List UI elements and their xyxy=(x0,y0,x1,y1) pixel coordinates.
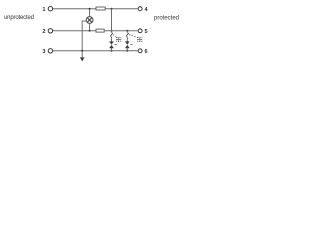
arrester B side dash xyxy=(130,44,132,46)
svg-text:5: 5 xyxy=(145,29,148,35)
branch B indicator linkage (dashed) xyxy=(129,35,138,38)
wire line3 (ground rail) xyxy=(53,50,138,52)
branch B vertical from line2 xyxy=(126,31,128,33)
terminal 2 circle xyxy=(48,29,52,33)
wire gdt ground electrode stub xyxy=(82,21,86,51)
wire line1 right segment xyxy=(105,8,138,10)
surge arrester A (spark gap) xyxy=(110,42,114,48)
svg-text:protected: protected xyxy=(154,15,179,21)
branch B thermal disconnect xyxy=(126,33,129,37)
branch B wire bottom xyxy=(126,48,128,51)
branch A wire bottom xyxy=(111,48,113,51)
terminal 3 circle xyxy=(48,49,52,53)
terminal 4 circle xyxy=(138,7,142,11)
resistor R2 xyxy=(96,29,104,32)
junction dot line2 x127.3 xyxy=(126,30,128,32)
junction dot line2 x111.5 (crossing) xyxy=(111,30,113,32)
junction dot line1 x89.7 xyxy=(89,8,91,10)
svg-text:2: 2 xyxy=(42,29,45,35)
defect indicator box B xyxy=(138,37,142,41)
junction dot line3 x82.2 xyxy=(81,50,83,52)
wire gdt top vertical xyxy=(89,9,91,17)
terminal 1 circle xyxy=(48,7,52,11)
junction dot line1 x111.5 xyxy=(111,8,113,10)
resistor R1 xyxy=(96,7,105,10)
junction dot line3 x111.5 xyxy=(111,50,113,52)
branch A thermal disconnect xyxy=(110,33,113,37)
surge arrester B (spark gap) xyxy=(125,42,129,48)
branch B wire mid xyxy=(126,37,128,42)
branch A wire mid xyxy=(111,37,113,42)
junction dot line2 x89.7 xyxy=(89,30,91,32)
junction dot line3 x127.3 xyxy=(126,50,128,52)
wire line1 left segment xyxy=(53,8,96,10)
wire line2 left segment xyxy=(53,30,96,32)
svg-text:1: 1 xyxy=(42,7,45,13)
svg-text:6: 6 xyxy=(145,49,148,55)
branch A indicator linkage (dashed) xyxy=(113,35,117,38)
wire line2 right segment xyxy=(104,30,138,32)
svg-text:unprotected: unprotected xyxy=(4,15,34,21)
terminal 6 circle xyxy=(138,49,142,53)
terminal 5 circle xyxy=(138,29,142,33)
arrester A side dash xyxy=(114,44,116,46)
wire ground drop xyxy=(81,51,83,58)
gas discharge tube (3-electrode arrester) xyxy=(86,17,93,24)
branch A vertical from line1 xyxy=(111,9,113,33)
ground arrow (PE) xyxy=(80,57,85,61)
wire gdt bottom vertical xyxy=(89,23,91,30)
background xyxy=(0,0,185,72)
svg-text:3: 3 xyxy=(42,49,45,55)
defect indicator box A xyxy=(117,37,121,41)
